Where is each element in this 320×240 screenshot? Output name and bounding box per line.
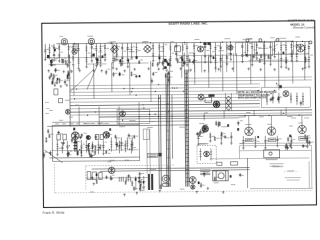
wire riser forest — [220, 55, 222, 72]
wire riser — [181, 57, 183, 78]
clutter remote box interior — [270, 96, 302, 107]
grid resistor stack below V12 — [73, 140, 77, 152]
wire riser — [129, 63, 131, 95]
wire bus C5 — [70, 97, 260, 99]
tube V22 — [189, 177, 196, 184]
component string S12 — [104, 43, 109, 61]
wire bus D2 — [47, 125, 189, 126]
label above driver box — [198, 143, 208, 144]
component string S38 — [269, 42, 275, 66]
wire bus C7 — [70, 104, 260, 106]
wire drop — [248, 116, 250, 127]
clutter mid C — [196, 120, 243, 141]
tube V6 — [296, 44, 304, 52]
label DET COND — [141, 42, 147, 45]
tube V14 — [86, 136, 90, 140]
wire drop — [301, 116, 303, 126]
wire link — [245, 53, 309, 56]
wire riser — [236, 53, 238, 94]
tube V4 — [246, 39, 249, 42]
component string O292 — [290, 136, 295, 149]
left block string 68 — [66, 141, 69, 156]
wire selector right — [230, 93, 232, 110]
wire riser forest — [184, 53, 186, 73]
component string S26 — [193, 42, 198, 62]
filter choke winding stack — [200, 170, 210, 175]
clutter left block — [57, 130, 138, 156]
wire left riser — [69, 55, 72, 127]
oscillator trimmer X1 — [72, 49, 77, 54]
clutter left block strip — [67, 149, 96, 158]
wire selector left — [224, 93, 226, 110]
component string S41 — [285, 42, 288, 69]
riser from remote box — [285, 108, 287, 116]
chassis dashed far left — [53, 164, 55, 193]
wire riser — [169, 59, 171, 85]
wire bus C1 — [70, 84, 260, 86]
wire drop D — [143, 176, 145, 190]
component string S37 — [263, 42, 268, 65]
component string S32 — [230, 42, 235, 61]
remote box string 298 — [296, 93, 298, 105]
wire link — [249, 59, 289, 61]
left block string 120 — [118, 140, 124, 153]
wire bus C2 — [70, 87, 260, 89]
clutter top band second row MR — [176, 55, 197, 66]
component string S39 — [273, 42, 278, 59]
wire link long right — [177, 61, 309, 62]
wire lower right a — [239, 144, 311, 147]
coupling bar above V10 — [208, 94, 214, 96]
wire lower right right end — [310, 145, 312, 188]
wire riser forest — [208, 54, 210, 72]
component string O266 — [264, 136, 269, 149]
wire drop — [118, 106, 120, 125]
wire riser forest — [226, 54, 228, 72]
wire lower right b — [239, 149, 311, 152]
wire drop D — [139, 176, 141, 190]
coil L3 — [73, 44, 79, 50]
wire drop — [270, 116, 272, 127]
coil can pair left of V13 — [95, 134, 103, 139]
left frame marks — [45, 102, 50, 114]
component string S36 — [256, 42, 262, 60]
tube V8 — [65, 109, 70, 114]
component string S5 — [67, 44, 73, 64]
left block string 93 — [91, 142, 93, 153]
tube V11 — [120, 111, 126, 117]
output tube V17 — [245, 127, 253, 135]
component string S43 — [296, 41, 301, 62]
clutter osc left — [48, 68, 72, 81]
wire drop — [223, 110, 225, 118]
component string S4 — [58, 44, 63, 63]
component string S18 — [135, 43, 140, 59]
label plate under V17 — [246, 138, 254, 141]
component string S17 — [130, 43, 135, 59]
cap above remote box — [279, 85, 282, 88]
component string O278 — [276, 136, 282, 147]
remote unit box — [261, 87, 310, 108]
clutter row D — [91, 171, 244, 190]
miscellaneous part labels — [48, 34, 305, 193]
component string S35 — [251, 42, 257, 66]
tube V25 — [283, 91, 289, 97]
label top right box — [242, 38, 286, 40]
component string O308 — [306, 135, 311, 148]
wire link — [177, 54, 237, 57]
antenna coil L2 — [88, 38, 94, 44]
wire lower right box top — [215, 157, 310, 160]
label under output transformer — [266, 159, 278, 160]
wire riser forest — [233, 53, 235, 72]
border frame — [42, 21, 317, 208]
wire riser — [150, 61, 152, 102]
left control block outline — [52, 125, 139, 162]
wire riser — [208, 56, 210, 87]
antenna coil L1 — [61, 39, 67, 45]
wire riser — [303, 47, 305, 79]
clutter left edge C — [43, 129, 54, 158]
dark boxes left of bundle — [164, 59, 170, 69]
narrow box in block — [143, 129, 149, 140]
component string S14 — [116, 43, 121, 61]
wire antenna bus — [56, 41, 310, 43]
clutter row B mid — [105, 68, 173, 84]
bundle junction blob — [158, 153, 161, 157]
tube V23 — [191, 185, 195, 189]
remote box string 274 — [272, 93, 275, 104]
bundle A ticks — [166, 77, 170, 176]
wire bus C9 — [70, 110, 312, 112]
component string S23 — [175, 43, 178, 61]
filter capacitor block C30 — [148, 174, 153, 190]
driver dashed box — [197, 145, 216, 163]
svg-text:Frank R. White: Frank R. White — [43, 211, 65, 215]
wire diagonal link — [70, 70, 94, 92]
speaker label box — [147, 153, 157, 157]
wire riser — [291, 50, 293, 84]
wire shielded bundle A — [166, 73, 170, 187]
wire riser low b — [149, 129, 151, 174]
component string S27 — [204, 42, 210, 63]
wire link — [87, 63, 107, 65]
choke windings pair — [119, 177, 130, 182]
component string S6 — [72, 44, 77, 67]
wire drop — [138, 102, 140, 125]
chassis faint bottom right — [250, 187, 313, 190]
remote box string 268 — [266, 93, 268, 105]
clutter left B — [51, 76, 70, 85]
wire bus D1b — [117, 118, 239, 119]
rectifier block boxes — [87, 171, 102, 179]
wire bus C10 — [70, 113, 312, 115]
component string P222 — [220, 132, 226, 144]
component string P211 — [209, 132, 215, 142]
wire bus D3 — [50, 156, 140, 159]
left block string 132 — [130, 140, 136, 153]
speaker — [162, 175, 169, 186]
wire output row link — [239, 142, 311, 145]
wire riser mid — [171, 95, 174, 159]
tube V9 — [198, 94, 204, 100]
left block string 58 — [56, 140, 61, 156]
clutter right C — [285, 134, 314, 150]
wire drop — [280, 110, 282, 116]
block inner string 112 — [110, 137, 112, 151]
wire drop — [253, 110, 255, 116]
component string S19 — [152, 43, 155, 62]
wire riser forest — [194, 54, 196, 73]
wire diagonal link 2 — [44, 150, 62, 163]
component string S15 — [121, 43, 127, 65]
chassis dashed top — [86, 164, 175, 167]
bundle B ladder ticks — [185, 74, 189, 182]
grid box of V9 — [205, 97, 212, 102]
component string S29 — [214, 42, 220, 69]
component string S33 — [241, 42, 246, 63]
svg-text:FROM SOCKET TO CHASSIS: FROM SOCKET TO CHASSIS — [238, 94, 270, 97]
chassis dashed top right — [175, 167, 250, 170]
wire bus C6 — [70, 100, 260, 102]
ground row top band — [47, 65, 303, 73]
switch box — [231, 162, 238, 166]
tube V7 — [309, 41, 312, 44]
labels below bus D1 right — [291, 117, 309, 118]
lower right text block — [285, 177, 301, 181]
svg-text:(Remote Control): (Remote Control) — [293, 25, 315, 29]
tube V16 — [204, 151, 210, 157]
wire link — [113, 55, 167, 58]
remote box string 292 — [290, 93, 292, 104]
left block string 99 — [97, 140, 99, 154]
label OSC COND — [106, 43, 113, 46]
component string S44 — [304, 41, 309, 69]
left block string 63 — [61, 143, 64, 154]
tube V2 — [197, 46, 203, 52]
component string S20 — [158, 43, 164, 64]
wire drop D — [135, 176, 137, 190]
component string S16 — [126, 43, 131, 68]
wire lower right left end — [238, 146, 240, 159]
component string S11 — [99, 43, 104, 67]
wire drop — [98, 106, 100, 125]
tube V13 — [103, 132, 110, 139]
block inner string 133 — [131, 137, 134, 151]
wire diagonal link 1b — [87, 63, 99, 89]
svg-text:WITH 1000 OHM/V METER: WITH 1000 OHM/V METER — [238, 97, 267, 99]
fuse box — [217, 162, 222, 165]
power transformer T2 — [213, 171, 229, 181]
chassis dashed left — [85, 166, 87, 190]
tuning capacitor C1a — [110, 45, 118, 53]
note text box — [238, 91, 277, 100]
wire drop — [78, 107, 80, 125]
component string S7 — [77, 44, 80, 70]
selector stack — [226, 96, 231, 110]
wire riser forest — [201, 55, 203, 72]
wire riser — [222, 54, 224, 91]
wire bus D1 — [99, 115, 312, 117]
component string S8 — [85, 43, 91, 68]
wire riser — [111, 62, 113, 92]
wire bus D2a — [52, 121, 189, 122]
clutter top band second row R — [253, 53, 310, 64]
component string P232 — [230, 132, 233, 144]
wire bus C8 — [70, 107, 260, 109]
wire link — [46, 56, 107, 59]
component string S42 — [290, 41, 296, 62]
component string S1 — [44, 44, 49, 61]
clutter row D right — [133, 179, 146, 192]
wire shielded bundle B — [185, 70, 189, 187]
block inner string 117 — [115, 137, 118, 150]
wire bus E2 — [100, 170, 250, 171]
block inner string 122 — [120, 137, 125, 151]
tube V12 — [71, 132, 79, 140]
output transformer box — [264, 150, 280, 158]
wire bus C4 — [70, 94, 260, 96]
rectifier V21 — [108, 167, 115, 174]
wire power box left — [246, 158, 248, 188]
wire bus B1 — [185, 77, 312, 78]
coil can pair left of V12 — [57, 134, 67, 140]
left block string 82 — [80, 140, 85, 157]
component string S25 — [186, 42, 189, 66]
transformer can T1 — [174, 46, 180, 52]
mid right text block — [270, 163, 284, 167]
svg-text:SCOTT RADIO LABS. INC.: SCOTT RADIO LABS. INC. — [168, 21, 208, 25]
left block string 87 — [85, 140, 88, 152]
wire link — [179, 61, 209, 63]
wire riser — [264, 53, 266, 87]
component string S45 — [308, 41, 313, 68]
component string S3 — [53, 44, 59, 62]
output tube V19 — [298, 125, 306, 133]
wire drop — [203, 113, 205, 120]
V16 interior strings — [199, 148, 212, 160]
chassis dashed bottom — [55, 190, 313, 192]
IF shield box — [117, 109, 150, 124]
left block label row — [55, 123, 109, 124]
dark component blobs — [47, 47, 292, 186]
tube V15 (detector) — [202, 126, 208, 132]
wire riser — [278, 52, 280, 91]
wire link — [49, 63, 69, 65]
component string S10 — [95, 43, 101, 67]
remote box string 304 — [302, 92, 304, 105]
tuning capacitor C1b — [143, 45, 151, 53]
component string S2 — [48, 44, 53, 59]
component string S21 — [162, 43, 167, 70]
wire link — [119, 62, 149, 64]
component string O244 — [242, 136, 248, 150]
component string S9 — [91, 43, 97, 62]
block inner string 128 — [126, 137, 131, 149]
left block string 126 — [124, 140, 126, 152]
wire riser forest — [188, 55, 190, 73]
component string S22 — [169, 43, 174, 67]
label plate under V18 — [268, 138, 276, 141]
left block string 104 — [102, 140, 107, 155]
component string O256 — [254, 136, 260, 148]
wire riser — [194, 59, 196, 85]
wire bus C3 — [70, 91, 260, 93]
wire bundle C — [158, 95, 161, 189]
label plate under V19 — [299, 137, 308, 140]
tube V5 — [259, 39, 262, 42]
tube V3 — [228, 45, 233, 50]
component string S31 — [226, 42, 232, 65]
wire bus E1 — [92, 168, 250, 170]
component string S24 — [182, 43, 187, 68]
chassis faint right — [308, 161, 310, 188]
component string S30 — [219, 42, 224, 68]
component string S28 — [209, 42, 215, 63]
terminal strip — [54, 89, 63, 103]
wire bus B2 — [185, 80, 312, 81]
clutter top band second row ML — [114, 57, 171, 67]
wire riser — [93, 64, 95, 99]
tube V5b — [276, 39, 279, 42]
wire block mid — [53, 149, 138, 152]
ground symbols row D — [93, 176, 225, 196]
remote box string 280 — [278, 93, 281, 104]
tube V10 — [213, 101, 220, 108]
component string S13 — [112, 43, 118, 69]
component string S34 — [246, 42, 252, 57]
component string S40 — [280, 42, 286, 69]
wire riser forest — [215, 53, 217, 72]
wire riser — [73, 66, 75, 96]
top right section box 2 — [274, 41, 293, 54]
ground trio row B left — [54, 84, 68, 88]
wire riser low a — [146, 129, 148, 174]
wire bus E3 — [86, 176, 148, 179]
clutter block right mid — [87, 143, 104, 152]
wire riser — [250, 54, 252, 84]
component string P199 — [197, 132, 203, 145]
clutter top band second row L — [50, 57, 102, 68]
top right section box 1 — [235, 42, 272, 55]
output tube V18 — [267, 127, 275, 135]
tone control boxes — [203, 42, 210, 45]
svg-text:— 16935 —: — 16935 — — [284, 169, 298, 173]
